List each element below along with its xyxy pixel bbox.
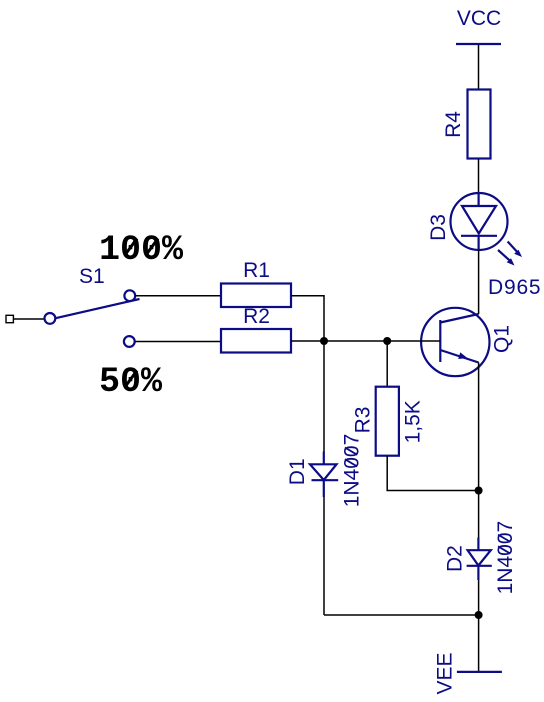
wire node D to VEE (478, 615, 480, 671)
wire VCC to R4 (478, 45, 480, 90)
wire node B to R3 (386, 341, 388, 387)
wire D2 to node D (478, 580, 480, 615)
switch S1 throw contact top (124, 290, 135, 301)
wire throw1 to R1 (135, 295, 221, 297)
switch terminal square (6, 315, 13, 322)
svg-text:R3: R3 (352, 407, 375, 434)
wire D3 to Q1 collector (478, 250, 480, 314)
svg-text:D2: D2 (443, 545, 466, 572)
resistor R2 (221, 329, 291, 353)
wire throw2 to R2 (135, 341, 221, 343)
label 1,5K (402, 400, 425, 443)
wire R2 to node A (291, 340, 324, 342)
resistor R1 (221, 284, 291, 308)
wire Q1 emitter down (478, 363, 480, 491)
svg-text:1N4007: 1N4007 (341, 434, 364, 508)
LED arrow 1 (508, 242, 522, 258)
diode D2 (467, 538, 492, 581)
svg-text:S1: S1 (79, 265, 105, 288)
svg-text:D965: D965 (488, 276, 541, 299)
power VCC bar (456, 43, 501, 45)
svg-text:D3: D3 (427, 214, 450, 241)
svg-text:1,5K: 1,5K (402, 400, 425, 443)
label D3 (427, 214, 450, 241)
power VEE label (434, 652, 457, 694)
svg-text:R1: R1 (243, 259, 270, 282)
wire bottom horizontal (324, 614, 479, 616)
switch S1 lever (55, 299, 140, 318)
wire node A to D1 (323, 341, 325, 452)
node B junction (383, 337, 391, 345)
LED D3 (451, 193, 508, 250)
wire node B to Q1 base (387, 340, 440, 342)
wire D1 down (323, 497, 325, 615)
label D1 (286, 458, 309, 485)
svg-text:R4: R4 (442, 111, 465, 138)
svg-text:D1: D1 (286, 458, 309, 485)
switch S1 pole contact (45, 313, 56, 324)
svg-text:Q1: Q1 (491, 325, 514, 353)
slash zero 1 of 100% (126, 239, 137, 254)
svg-text:100%: 100% (99, 230, 184, 270)
transistor Q1 (421, 308, 489, 376)
svg-text:VCC: VCC (457, 7, 501, 30)
node D junction (475, 611, 483, 619)
label 1N4007 of D2 (494, 521, 517, 595)
label 1N4007 of D1 (341, 434, 364, 508)
node C junction (475, 487, 483, 495)
node A junction (320, 337, 328, 345)
wire R4 to D3 (478, 159, 480, 193)
wire R1 right (291, 296, 324, 341)
label D2 (443, 545, 466, 572)
wire node C to D2 (478, 491, 480, 539)
diode D1 (310, 452, 338, 498)
svg-text:VEE: VEE (434, 652, 457, 694)
label R4 (442, 111, 465, 138)
wire node A to node B (324, 340, 387, 342)
svg-text:1N4007: 1N4007 (494, 521, 517, 595)
svg-text:50%: 50% (99, 362, 163, 402)
resistor R4 (468, 90, 491, 159)
resistor R3 (376, 387, 399, 456)
power VEE bar (457, 671, 502, 673)
wire R3 bottom (387, 456, 478, 491)
label R3 (352, 407, 375, 434)
switch S1 throw contact bottom (124, 336, 135, 347)
wire terminal to pole (13, 318, 44, 320)
svg-text:R2: R2 (243, 305, 270, 328)
LED arrow 2 (498, 250, 515, 266)
slash zero 2 of 100% (147, 239, 158, 254)
label Q1 (491, 325, 514, 353)
slash zero of 50% (126, 371, 137, 386)
